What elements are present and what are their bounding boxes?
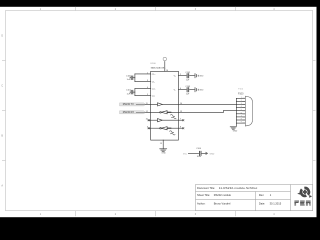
svg-text:2: 2 xyxy=(241,100,242,102)
svg-text:100n: 100n xyxy=(197,156,201,158)
svg-text:8: 8 xyxy=(241,119,242,121)
svg-text:3: 3 xyxy=(241,103,242,105)
svg-text:U100: U100 xyxy=(150,63,156,65)
svg-text:4: 4 xyxy=(241,106,242,108)
svg-text:GND: GND xyxy=(210,153,215,155)
svg-text:7: 7 xyxy=(241,115,242,117)
svg-text:5: 5 xyxy=(241,109,242,111)
svg-text:MAX232ACSE+: MAX232ACSE+ xyxy=(151,66,167,69)
svg-text:C1-: C1- xyxy=(152,82,156,84)
svg-text:11-RS232-module.SchDoc: 11-RS232-module.SchDoc xyxy=(219,186,258,190)
svg-text:GND: GND xyxy=(199,90,204,92)
svg-text:C2-: C2- xyxy=(152,96,156,98)
svg-text:P100: P100 xyxy=(238,93,244,95)
svg-text:RS232 TX: RS232 TX xyxy=(123,103,134,106)
svg-text:D: D xyxy=(1,35,3,38)
svg-text:GND: GND xyxy=(199,76,204,78)
svg-text:Author:: Author: xyxy=(197,201,206,205)
svg-text:C: C xyxy=(1,85,3,88)
svg-text:Sheet Title:: Sheet Title: xyxy=(197,193,210,197)
svg-text:RS232 module: RS232 module xyxy=(214,193,232,197)
svg-text:6: 6 xyxy=(241,112,242,114)
svg-text:Rev:: Rev: xyxy=(259,193,265,197)
svg-text:Date:: Date: xyxy=(259,201,265,205)
svg-text:GND: GND xyxy=(161,153,166,155)
svg-text:9: 9 xyxy=(241,122,242,124)
svg-text:30.1.2015: 30.1.2015 xyxy=(270,201,282,205)
svg-text:RS232 RX: RS232 RX xyxy=(123,111,135,114)
svg-text:Bruno Vunderl: Bruno Vunderl xyxy=(214,201,231,205)
svg-text:VCC: VCC xyxy=(183,153,188,155)
svg-text:P100: P100 xyxy=(238,88,244,90)
svg-text:V-: V- xyxy=(174,90,176,92)
svg-text:1: 1 xyxy=(241,97,242,99)
svg-text:GND: GND xyxy=(233,131,238,133)
svg-text:Document Title:: Document Title: xyxy=(197,186,215,190)
